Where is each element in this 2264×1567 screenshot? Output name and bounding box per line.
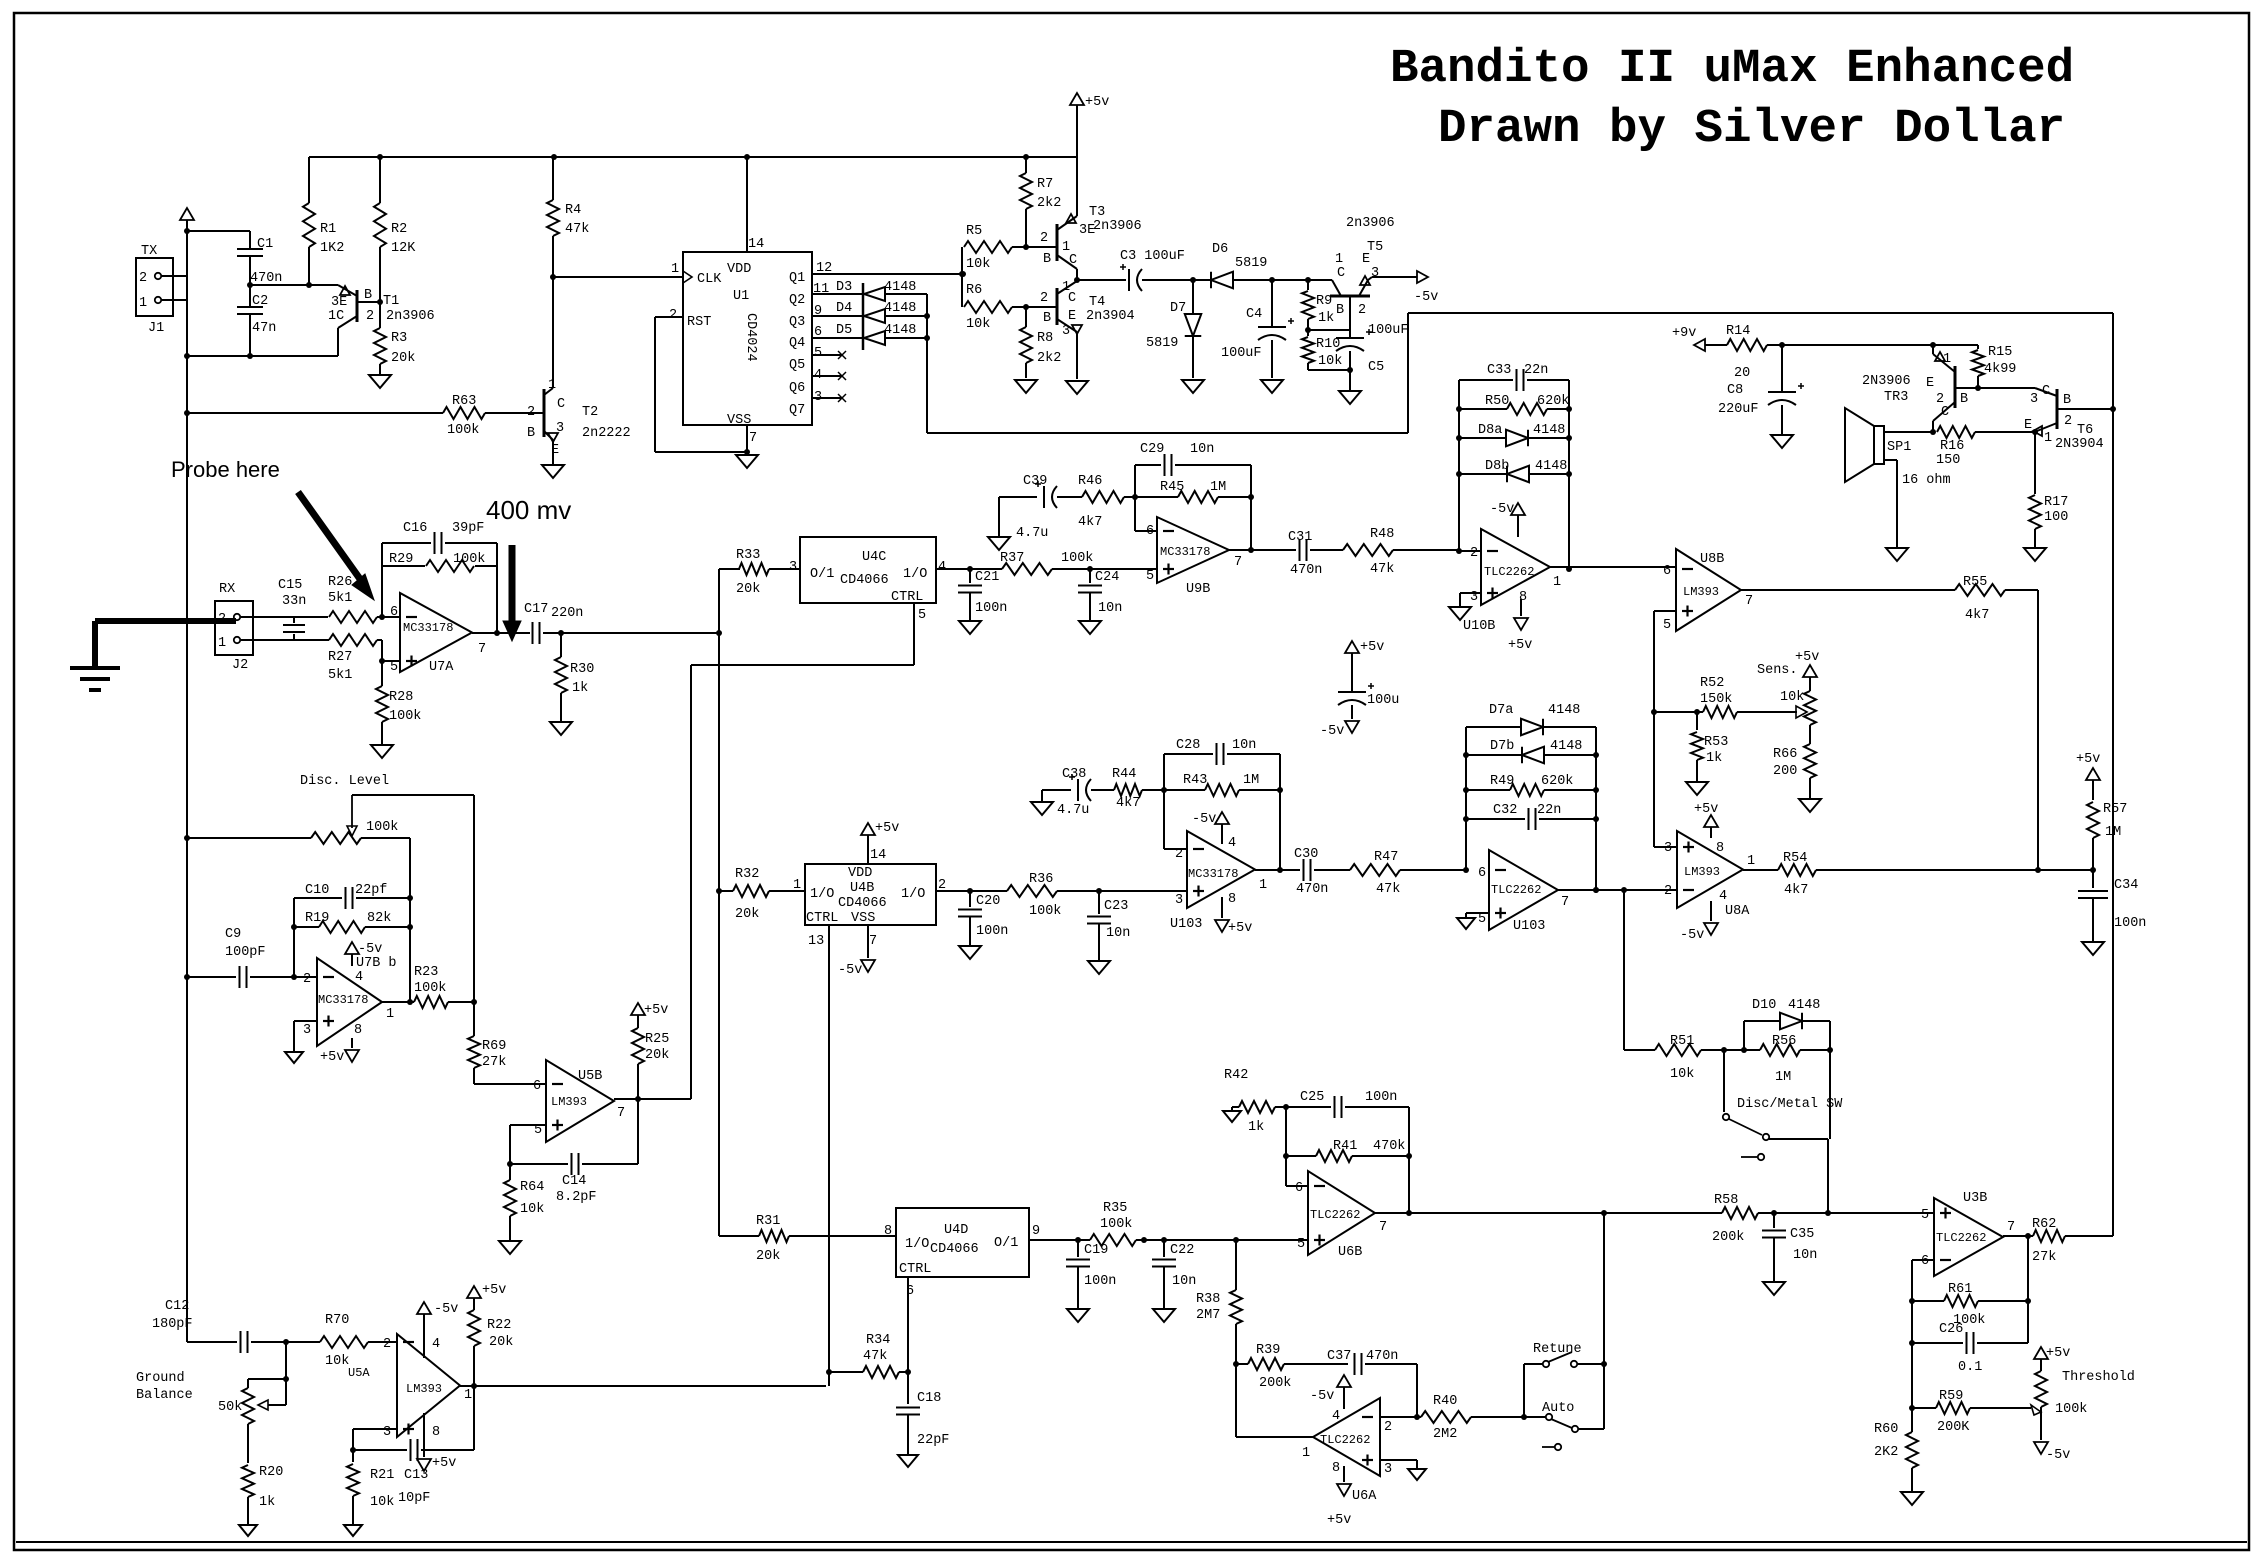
svg-text:200: 200	[1773, 764, 1797, 779]
svg-text:8: 8	[1716, 841, 1724, 856]
svg-text:R54: R54	[1783, 851, 1807, 866]
svg-text:-5v: -5v	[1414, 290, 1438, 305]
resistor R69	[468, 1002, 506, 1084]
wire R41 right vert	[1406, 1107, 1412, 1216]
wire U8A -5v	[1680, 901, 1718, 943]
wire U7B -5v	[345, 942, 382, 966]
svg-text:10n: 10n	[1190, 442, 1214, 457]
wire R54 to R57	[2038, 867, 2096, 873]
svg-text:4: 4	[355, 970, 363, 985]
svg-text:1K2: 1K2	[320, 241, 344, 256]
switch Disc-Metal SW	[1723, 1050, 1843, 1160]
svg-text:LM393: LM393	[551, 1095, 587, 1109]
ground C35	[1763, 1282, 1785, 1295]
op-amp U6B TLC2262	[1295, 1171, 1387, 1260]
svg-text:R46: R46	[1078, 474, 1102, 489]
svg-text:2n3906: 2n3906	[1093, 219, 1142, 234]
svg-text:+9v: +9v	[1672, 326, 1696, 341]
svg-text:-5v: -5v	[2046, 1448, 2070, 1463]
title line 2	[1438, 102, 2065, 156]
svg-text:E: E	[2024, 418, 2032, 433]
wire U10B out	[1550, 566, 1676, 568]
svg-text:1M: 1M	[1243, 773, 1259, 788]
ground SP1	[1886, 548, 1908, 561]
resistor R33	[719, 548, 800, 633]
wire U9B minus	[1135, 465, 1157, 531]
wire Auto wiring	[1524, 1417, 1604, 1429]
wire R29 feedback	[382, 552, 497, 633]
svg-text:MC33178: MC33178	[1160, 545, 1210, 559]
wire fb right vert U103	[1593, 727, 1599, 893]
svg-text:C39: C39	[1023, 474, 1047, 489]
wire U6A -5v pin4	[1310, 1375, 1351, 1409]
svg-text:3: 3	[1371, 266, 1379, 281]
svg-text:33n: 33n	[282, 594, 306, 609]
svg-text:R4: R4	[565, 203, 581, 218]
svg-text:470k: 470k	[1373, 1139, 1405, 1154]
resistor R26	[328, 575, 400, 623]
svg-text:C38: C38	[1062, 767, 1086, 782]
diode D7	[1146, 280, 1201, 378]
svg-text:Q7: Q7	[789, 403, 805, 418]
svg-text:7: 7	[1745, 594, 1753, 609]
transistor TR3 2N3906	[1862, 345, 1978, 432]
op-amp U103 TLC2262	[1478, 850, 1569, 934]
svg-text:10n: 10n	[1232, 738, 1256, 753]
resistor R55	[1741, 575, 2038, 623]
svg-text:16 ohm: 16 ohm	[1902, 473, 1951, 488]
wire U3B out	[2003, 1233, 2031, 1239]
node C22	[1161, 1237, 1167, 1243]
svg-text:1: 1	[1943, 352, 1951, 367]
svg-text:22pf: 22pf	[355, 883, 387, 898]
capacitor C30	[1294, 847, 1350, 897]
wire U6A out fb	[1236, 1364, 1313, 1437]
svg-text:4: 4	[1228, 836, 1236, 851]
svg-text:2: 2	[1470, 546, 1478, 561]
resistor R58	[1712, 1193, 1828, 1245]
svg-text:R37: R37	[1000, 551, 1024, 566]
svg-text:C35: C35	[1790, 1227, 1814, 1242]
svg-text:C17: C17	[524, 602, 548, 617]
svg-text:R28: R28	[389, 690, 413, 705]
node C4 top	[1269, 277, 1275, 283]
svg-text:J2: J2	[232, 658, 248, 673]
wire TX pin2 stub	[161, 275, 187, 277]
ground R60	[1901, 1492, 1923, 1505]
diode D8a	[1456, 423, 1572, 446]
op-amp U5B LM393	[533, 1060, 625, 1142]
capacitor C26	[1909, 1322, 2028, 1375]
svg-text:7: 7	[617, 1106, 625, 1121]
wire Q4	[812, 337, 863, 339]
wire fb left vert U103	[1465, 727, 1467, 870]
svg-text:CD4066: CD4066	[838, 896, 887, 911]
ground C4	[1261, 380, 1283, 393]
svg-text:R40: R40	[1433, 1394, 1457, 1409]
svg-text:R45: R45	[1160, 480, 1184, 495]
resistor R37	[970, 551, 1093, 575]
text Probe here	[171, 457, 280, 482]
resistor R66	[1773, 744, 1816, 798]
switch Auto	[1542, 1401, 1578, 1432]
svg-text:U4B: U4B	[850, 881, 874, 896]
resistor R9	[1302, 280, 1334, 330]
svg-text:R51: R51	[1670, 1034, 1694, 1049]
svg-text:C4: C4	[1246, 307, 1262, 322]
svg-text:Threshold: Threshold	[2062, 1370, 2135, 1385]
svg-text:12K: 12K	[391, 241, 416, 256]
capacitor C19	[1066, 1240, 1116, 1308]
svg-text:U7B b: U7B b	[356, 956, 397, 971]
op-amp U8B LM393	[1663, 549, 1753, 633]
svg-text:20k: 20k	[391, 351, 415, 366]
svg-text:2: 2	[669, 308, 677, 323]
wire Q6 stub	[812, 372, 846, 380]
svg-text:R23: R23	[414, 965, 438, 980]
svg-text:-5v: -5v	[1310, 1389, 1334, 1404]
wire U103 plus gnd	[1466, 913, 1489, 917]
ground T2	[542, 465, 564, 478]
svg-text:U7A: U7A	[429, 660, 454, 675]
svg-text:5: 5	[1663, 618, 1671, 633]
ground R64	[499, 1241, 521, 1254]
ground U1	[736, 455, 758, 468]
wire U5A -5v pin4	[417, 1302, 458, 1358]
resistor R47	[1350, 850, 1466, 897]
svg-text:47k: 47k	[1370, 562, 1394, 577]
resistor R14	[1726, 324, 1767, 381]
svg-text:10k: 10k	[370, 1495, 394, 1510]
wire out to C3	[1077, 279, 1126, 281]
wire out row	[561, 632, 719, 634]
wire Q5 stub	[812, 351, 846, 359]
svg-text:3E: 3E	[331, 295, 347, 310]
svg-text:10k: 10k	[1318, 354, 1342, 369]
svg-text:TLC2262: TLC2262	[1936, 1231, 1986, 1245]
svg-text:2: 2	[303, 972, 311, 987]
capacitor C3 100uF	[1120, 249, 1193, 291]
svg-text:1: 1	[139, 296, 147, 311]
svg-text:1/O: 1/O	[901, 887, 925, 902]
svg-text:100n: 100n	[976, 924, 1008, 939]
svg-text:TLC2262: TLC2262	[1484, 565, 1534, 579]
svg-text:9: 9	[1032, 1224, 1040, 1239]
svg-text:R66: R66	[1773, 747, 1797, 762]
svg-text:R26: R26	[328, 575, 352, 590]
svg-text:Ground: Ground	[136, 1371, 185, 1386]
svg-text:7: 7	[749, 431, 757, 446]
wire to R38 node	[1164, 1237, 1308, 1243]
transistor T1 2n3906	[328, 285, 435, 356]
ground U6A plus	[1408, 1469, 1426, 1480]
capacitor C20	[958, 891, 1008, 945]
svg-text:CTRL: CTRL	[899, 1262, 931, 1277]
node TR3 base-R15	[1975, 385, 1981, 391]
svg-text:10k: 10k	[1780, 690, 1804, 705]
svg-text:10n: 10n	[1793, 1248, 1817, 1263]
svg-text:R53: R53	[1704, 735, 1728, 750]
svg-text:CD4066: CD4066	[840, 573, 889, 588]
svg-text:B: B	[527, 426, 535, 441]
ground R66	[1799, 799, 1821, 812]
IC U1 CD4024	[683, 252, 812, 428]
svg-text:RX: RX	[219, 582, 235, 597]
svg-text:47k: 47k	[863, 1349, 887, 1364]
svg-text:3: 3	[2030, 392, 2038, 407]
capacitor C1	[237, 231, 282, 286]
svg-text:2M2: 2M2	[1433, 1427, 1457, 1442]
wire R56 right down	[1829, 1050, 1831, 1139]
svg-text:R15: R15	[1988, 345, 2012, 360]
capacitor C29	[1135, 442, 1251, 550]
svg-text:TLC2262: TLC2262	[1320, 1433, 1370, 1447]
wire U4B vss -5v	[838, 925, 875, 978]
node T6 base bus	[2110, 406, 2116, 412]
svg-text:R29: R29	[389, 552, 413, 567]
resistor R32	[719, 867, 805, 922]
svg-text:U5A: U5A	[348, 1366, 370, 1380]
svg-text:82k: 82k	[367, 911, 391, 926]
ground C38	[1031, 790, 1053, 815]
svg-text:8: 8	[1228, 892, 1236, 907]
svg-text:R70: R70	[325, 1313, 349, 1328]
svg-text:2n2222: 2n2222	[582, 426, 631, 441]
wire U10A -5v	[1192, 812, 1229, 844]
svg-text:C22: C22	[1170, 1243, 1194, 1258]
ground R42	[1223, 1111, 1241, 1122]
capacitor C12	[152, 1299, 286, 1353]
svg-text:+5v: +5v	[1360, 640, 1384, 655]
svg-text:100pF: 100pF	[225, 945, 266, 960]
svg-text:R9: R9	[1316, 294, 1332, 309]
svg-text:T1: T1	[383, 294, 399, 309]
svg-text:2n3906: 2n3906	[386, 309, 435, 324]
svg-text:R25: R25	[645, 1032, 669, 1047]
svg-text:1: 1	[1302, 1446, 1310, 1461]
wire U4C out	[936, 566, 973, 572]
svg-text:D8b: D8b	[1485, 459, 1509, 474]
resistor R63	[187, 394, 544, 438]
ground U7B plus	[285, 1052, 303, 1063]
svg-text:C: C	[1068, 291, 1076, 306]
svg-text:R38: R38	[1196, 1292, 1220, 1307]
ground R3	[369, 375, 391, 388]
svg-text:C23: C23	[1104, 899, 1128, 914]
thick probe arrow	[298, 492, 374, 600]
svg-text:B: B	[1043, 311, 1051, 326]
svg-text:Q4: Q4	[789, 336, 805, 351]
wire U8B plus	[1654, 611, 1676, 847]
wire R5R6 left vert	[959, 247, 965, 307]
svg-text:6: 6	[1921, 1254, 1929, 1269]
svg-text:T4: T4	[1089, 295, 1105, 310]
wire SW to R58 node	[1769, 1139, 1828, 1215]
capacitor 100u	[1338, 683, 1399, 719]
svg-text:470n: 470n	[250, 271, 282, 286]
svg-text:7: 7	[1561, 895, 1569, 910]
svg-text:47k: 47k	[1376, 882, 1400, 897]
svg-text:2: 2	[2064, 414, 2072, 429]
diode D3	[836, 280, 927, 301]
resistor R41	[1283, 1139, 1412, 1162]
svg-text:R39: R39	[1256, 1343, 1280, 1358]
svg-text:-5v: -5v	[1680, 928, 1704, 943]
ground RX thick	[70, 668, 120, 690]
wire U103 out	[1558, 889, 1677, 891]
wire R69 to U5B	[474, 1083, 546, 1085]
svg-text:3: 3	[1175, 893, 1183, 908]
resistor R45	[1132, 480, 1254, 503]
svg-text:R61: R61	[1948, 1282, 1972, 1297]
svg-text:4148: 4148	[1533, 423, 1565, 438]
wire RX pin2	[241, 616, 328, 618]
svg-text:6: 6	[1295, 1181, 1303, 1196]
svg-text:2: 2	[1040, 291, 1048, 306]
svg-text:Probe here: Probe here	[171, 457, 280, 482]
wire U7A out	[472, 632, 530, 634]
node C1-C2	[247, 282, 253, 288]
resistor R22	[467, 1283, 513, 1386]
svg-text:Disc/Metal SW: Disc/Metal SW	[1737, 1097, 1843, 1112]
wire U7B plus gnd	[294, 1021, 317, 1051]
svg-text:100n: 100n	[1084, 1274, 1116, 1289]
resistor R62	[2028, 1217, 2113, 1265]
node U1 vdd top	[744, 154, 750, 160]
resistor R39	[1233, 1343, 1348, 1391]
wire TX pin1 stub	[161, 299, 187, 301]
svg-text:4k7: 4k7	[1784, 883, 1808, 898]
node U9B out	[1248, 547, 1254, 553]
svg-text:C25: C25	[1300, 1090, 1324, 1105]
svg-text:2n3904: 2n3904	[1086, 309, 1135, 324]
capacitor C18	[896, 1391, 949, 1454]
resistor R16	[1933, 426, 2035, 468]
capacitor C5 100uF	[1336, 323, 1409, 390]
svg-text:U4D: U4D	[944, 1223, 968, 1238]
svg-text:4k7: 4k7	[1116, 796, 1140, 811]
wire U6A minus	[1380, 1416, 1417, 1418]
svg-text:TLC2262: TLC2262	[1310, 1208, 1360, 1222]
svg-text:50k: 50k	[218, 1400, 242, 1415]
svg-text:7: 7	[2007, 1220, 2015, 1235]
resistor R51	[1624, 1034, 1724, 1082]
svg-text:U8A: U8A	[1725, 904, 1750, 919]
wire R55 down	[2035, 590, 2041, 873]
resistor R19	[294, 911, 413, 933]
svg-text:E: E	[1926, 376, 1934, 391]
resistor R15	[1933, 345, 2016, 388]
svg-text:CD4024: CD4024	[743, 313, 758, 362]
svg-text:1/O: 1/O	[903, 567, 927, 582]
svg-text:R8: R8	[1037, 331, 1053, 346]
svg-text:R27: R27	[328, 650, 352, 665]
ground C20	[959, 946, 981, 959]
node C23	[1096, 888, 1102, 894]
node R2 top	[377, 154, 383, 160]
svg-text:U6B: U6B	[1338, 1245, 1362, 1260]
svg-text:27k: 27k	[2032, 1250, 2056, 1265]
diode D5	[836, 323, 927, 345]
potentiometer Sens 10k	[1757, 650, 1819, 744]
connector TX J1	[136, 244, 173, 336]
wire U7B +5v pin8	[320, 1038, 359, 1065]
node D7 top	[1190, 277, 1196, 283]
svg-text:4: 4	[938, 560, 946, 575]
svg-text:U9B: U9B	[1186, 582, 1210, 597]
capacitor C32	[1463, 803, 1599, 830]
svg-text:+5v: +5v	[875, 821, 899, 836]
svg-text:2: 2	[1384, 1420, 1392, 1435]
svg-text:U4C: U4C	[862, 550, 886, 565]
svg-text:R52: R52	[1700, 676, 1724, 691]
svg-text:+5v: +5v	[482, 1283, 506, 1298]
ground C18	[898, 1455, 918, 1467]
svg-text:1: 1	[548, 378, 556, 393]
svg-text:2: 2	[139, 271, 147, 286]
wire R61 right vert	[2027, 1236, 2029, 1343]
svg-text:100u: 100u	[1367, 693, 1399, 708]
capacitor C2	[237, 285, 276, 356]
wire -5v pin4 U10B	[1490, 502, 1525, 537]
svg-text:C: C	[1337, 266, 1345, 281]
svg-text:Sens.: Sens.	[1757, 663, 1798, 678]
svg-text:C30: C30	[1294, 847, 1318, 862]
svg-text:7: 7	[869, 934, 877, 949]
svg-text:C1: C1	[257, 237, 273, 252]
capacitor C23	[1087, 891, 1130, 960]
svg-text:C26: C26	[1939, 1322, 1963, 1337]
svg-text:R22: R22	[487, 1318, 511, 1333]
svg-text:100k: 100k	[2055, 1402, 2087, 1417]
svg-text:150k: 150k	[1700, 692, 1732, 707]
wire to T5	[1272, 279, 1332, 281]
svg-text:B: B	[1336, 303, 1344, 318]
svg-text:R57: R57	[2103, 802, 2127, 817]
svg-text:7: 7	[1379, 1220, 1387, 1235]
node C8 top	[1767, 342, 1933, 348]
svg-text:620k: 620k	[1541, 774, 1573, 789]
svg-text:TR3: TR3	[1884, 390, 1908, 405]
svg-text:MC33178: MC33178	[318, 993, 368, 1007]
svg-text:1k: 1k	[572, 681, 588, 696]
svg-text:R50: R50	[1485, 394, 1509, 409]
svg-text:D7: D7	[1170, 301, 1186, 316]
resistor R17	[2029, 432, 2068, 547]
svg-text:1: 1	[1553, 575, 1561, 590]
svg-text:0.1: 0.1	[1958, 1360, 1982, 1375]
wire base T5	[1308, 329, 1350, 331]
svg-text:1C: 1C	[328, 309, 344, 324]
svg-text:1: 1	[1062, 240, 1070, 255]
wire U10A minus	[1164, 790, 1187, 849]
transistor T3 2n3906	[1012, 157, 1142, 280]
-5v arrow Threshold	[2034, 1442, 2070, 1463]
svg-text:C: C	[1941, 405, 1949, 420]
svg-text:2K2: 2K2	[1874, 1445, 1898, 1460]
svg-text:R3: R3	[391, 331, 407, 346]
capacitor C28	[1164, 738, 1280, 790]
svg-text:4.7u: 4.7u	[1016, 526, 1048, 541]
capacitor C14	[510, 1099, 638, 1205]
svg-text:T2: T2	[582, 405, 598, 420]
svg-text:2N3904: 2N3904	[2055, 437, 2104, 452]
wire top +5v rail	[309, 156, 1077, 158]
capacitor C10	[294, 883, 413, 909]
svg-text:VDD: VDD	[727, 262, 751, 277]
svg-text:R17: R17	[2044, 495, 2068, 510]
svg-text:J1: J1	[148, 321, 164, 336]
